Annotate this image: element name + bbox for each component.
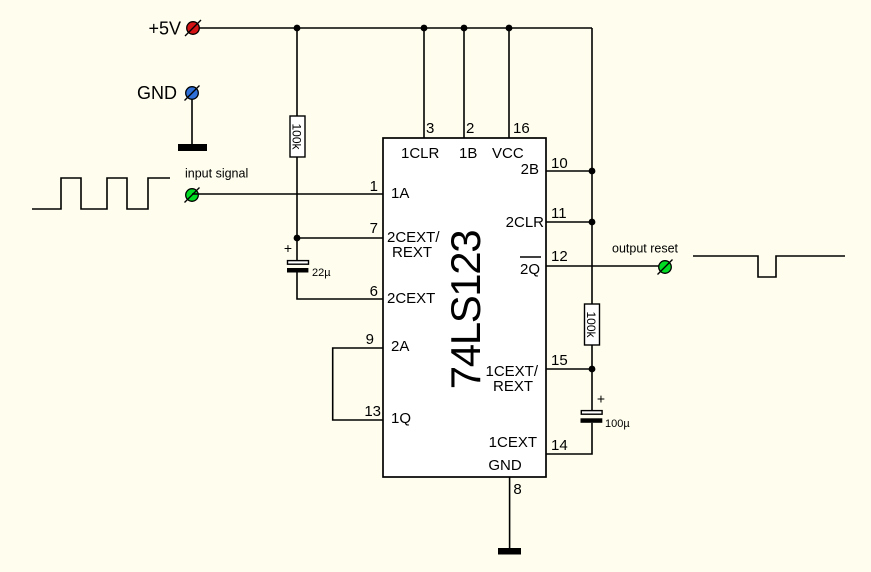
wire top +5V rail <box>199 27 592 29</box>
junction at pin 2 <box>461 25 468 32</box>
wire pin 15 <box>546 368 592 370</box>
wire pin 8 <box>509 477 511 548</box>
wire pin 9 to pin 13 loop <box>333 348 383 420</box>
svg-text:2: 2 <box>466 120 474 137</box>
svg-text:2B: 2B <box>521 161 539 178</box>
svg-text:+: + <box>284 240 292 256</box>
junction at resistor branch <box>294 25 301 32</box>
svg-text:10: 10 <box>551 155 568 172</box>
svg-text:22µ: 22µ <box>312 267 331 279</box>
pin label 2CEXT/REXT <box>387 229 440 261</box>
wire R2 to junction <box>591 345 593 410</box>
svg-text:14: 14 <box>551 437 568 454</box>
svg-text:GND: GND <box>137 83 177 103</box>
junction at pin 16 <box>506 25 513 32</box>
terminal output reset <box>658 260 673 275</box>
svg-text:input signal: input signal <box>185 167 248 181</box>
junction at pin 11 <box>589 219 596 226</box>
svg-text:6: 6 <box>370 283 378 300</box>
svg-text:11: 11 <box>551 205 567 222</box>
svg-text:GND: GND <box>488 457 522 474</box>
svg-text:output reset: output reset <box>612 242 679 256</box>
wire R1 to junction <box>296 157 298 238</box>
output waveform <box>693 256 845 277</box>
wire pin 2 <box>463 28 465 138</box>
junction at pin 7 / C1 <box>294 235 301 242</box>
junction at pin 3 <box>421 25 428 32</box>
pin label 1CEXT/REXT right <box>485 363 538 395</box>
svg-text:1Q: 1Q <box>391 410 411 427</box>
svg-text:16: 16 <box>513 120 530 137</box>
junction at pin 10 <box>589 168 596 175</box>
wire pin 10 <box>546 170 592 172</box>
wire right rail down <box>591 28 593 304</box>
svg-text:1CLR: 1CLR <box>401 145 440 162</box>
svg-text:74LS123: 74LS123 <box>442 231 489 389</box>
op IC U1 74LS123 body <box>383 138 546 477</box>
wire pin 3 <box>423 28 425 138</box>
wire pin 16 <box>508 28 510 138</box>
svg-text:15: 15 <box>551 352 568 369</box>
svg-text:2A: 2A <box>391 338 409 355</box>
pin label 2Q with overline <box>520 257 541 278</box>
svg-text:8: 8 <box>513 481 521 498</box>
svg-text:2Q: 2Q <box>520 261 540 278</box>
svg-text:1B: 1B <box>459 145 477 162</box>
wire C1 to pin 6 corner <box>297 273 383 300</box>
input waveform <box>32 178 170 209</box>
wire C2 to pin 14 corner <box>546 423 592 454</box>
terminal input signal <box>185 188 200 203</box>
junction at pin 15 <box>589 366 596 373</box>
svg-text:2CLR: 2CLR <box>506 214 545 231</box>
wire pin 11 <box>546 221 592 223</box>
svg-text:+5V: +5V <box>148 19 181 39</box>
svg-text:100k: 100k <box>290 123 304 150</box>
svg-text:100µ: 100µ <box>605 418 630 430</box>
capacitor C2 100µ <box>581 411 603 423</box>
wire pin 1 <box>192 193 383 195</box>
wire rail to resistor R1 <box>296 28 298 116</box>
svg-text:13: 13 <box>364 403 381 420</box>
svg-text:REXT: REXT <box>392 244 432 261</box>
svg-text:REXT: REXT <box>493 378 533 395</box>
wire GND terminal to ground <box>191 99 193 144</box>
wire junction to C1 <box>296 238 298 261</box>
resistor R1 100k <box>290 116 306 157</box>
svg-text:2CEXT: 2CEXT <box>387 290 435 307</box>
svg-text:100k: 100k <box>584 311 598 338</box>
resistor R2 100k <box>584 304 600 345</box>
svg-text:12: 12 <box>551 248 568 265</box>
svg-text:3: 3 <box>426 120 434 137</box>
svg-text:9: 9 <box>366 331 374 348</box>
svg-text:1CEXT: 1CEXT <box>489 434 537 451</box>
wire pin 12 output <box>546 265 659 267</box>
svg-text:1: 1 <box>370 178 378 195</box>
terminal GND <box>185 86 200 101</box>
svg-text:+: + <box>597 391 605 407</box>
ground symbol bottom <box>498 548 521 555</box>
capacitor C1 22µ <box>287 261 309 273</box>
ground symbol left <box>178 144 207 151</box>
wire pin 7 <box>297 237 383 239</box>
svg-text:7: 7 <box>370 220 378 237</box>
svg-text:1A: 1A <box>391 185 409 202</box>
svg-text:VCC: VCC <box>492 145 524 162</box>
terminal +5V <box>185 20 201 36</box>
